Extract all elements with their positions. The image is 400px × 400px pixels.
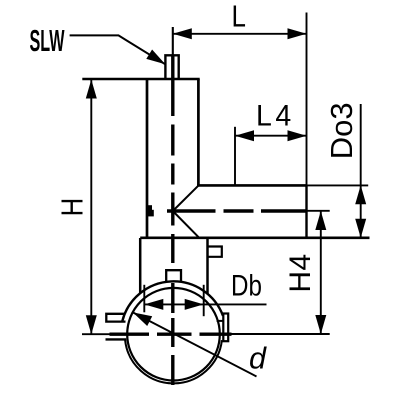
body right edge: [197, 79, 200, 186]
body top edge with H extension: [82, 78, 199, 81]
leader line d: [133, 312, 257, 376]
vertical centerline: [172, 27, 174, 385]
pipe circle: [127, 288, 220, 381]
svg-text:H4: H4: [284, 253, 317, 292]
H bottom extension line: [82, 333, 110, 335]
dimension L4 line: [235, 135, 307, 137]
weld bead mark b: [148, 205, 152, 210]
transition diagonal upper: [173, 186, 199, 211]
svg-text:H: H: [55, 198, 90, 217]
saddle block right edge: [206, 238, 209, 294]
dimension H4 arrows: [315, 211, 326, 230]
dimension H line: [90, 80, 92, 335]
terminal tab: [208, 247, 222, 257]
dimension L line: [173, 33, 307, 35]
lower strap arc: [125, 340, 222, 383]
svg-text:d: d: [249, 341, 267, 375]
Db right extension line: [203, 285, 205, 316]
right tab of clamp: [223, 314, 228, 342]
dimension Do3 line: [360, 104, 362, 238]
outlet top extension for Do3: [307, 184, 369, 186]
svg-text:L4: L4: [256, 100, 295, 133]
svg-text:Db: Db: [231, 269, 262, 302]
H4 top extension line: [307, 210, 330, 212]
top tab on saddle: [166, 270, 181, 281]
dimension Db line: [144, 303, 266, 305]
dimension Do3 arrows: [355, 185, 366, 204]
cap SLW nut: [165, 55, 178, 79]
svg-text:SLW: SLW: [30, 25, 65, 59]
svg-text:Do3: Do3: [324, 102, 359, 159]
dimension H arrows: [86, 80, 97, 99]
saddle outer arc: [122, 281, 223, 320]
outlet mouth edge thin upper part (L extension): [306, 13, 308, 186]
dimension Db arrows: [144, 299, 163, 310]
left tab of clamp: [106, 314, 125, 322]
dimension H4 line: [320, 211, 322, 334]
outlet top edge: [197, 184, 307, 187]
body left edge: [146, 79, 149, 238]
dimension L arrows: [173, 28, 192, 39]
saddle band end cut: [217, 320, 223, 322]
outlet mouth edge: [305, 185, 307, 237]
transition diagonal lower: [173, 211, 199, 237]
strap left flange: [106, 338, 127, 340]
H4 bottom extension line: [228, 333, 330, 335]
outlet horizontal centerline: [167, 209, 307, 212]
leader d arrow: [133, 312, 152, 326]
pipe horizontal centerline: [110, 333, 232, 336]
outlet bottom edge and saddle top: [140, 237, 369, 240]
dimension L4 arrows: [235, 130, 254, 141]
L4 left extension line: [234, 127, 236, 186]
leader line SLW: [70, 35, 166, 64]
svg-text:L: L: [232, 0, 246, 33]
leader SLW arrow: [146, 50, 165, 65]
Db left extension line: [143, 285, 145, 313]
saddle block left edge: [139, 238, 142, 293]
